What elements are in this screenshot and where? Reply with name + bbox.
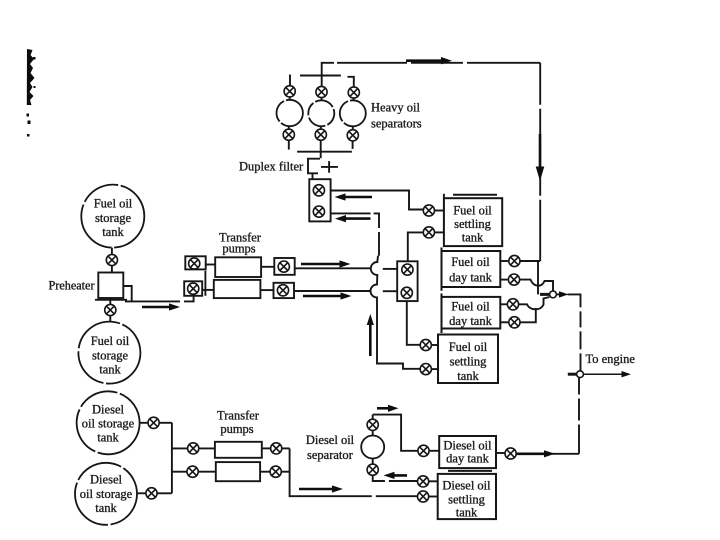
svg-text:Fuel oil: Fuel oil: [453, 204, 492, 218]
svg-text:tank: tank: [457, 369, 479, 383]
svg-text:Duplex filter: Duplex filter: [239, 160, 304, 174]
svg-text:day tank: day tank: [449, 314, 492, 328]
svg-text:tank: tank: [462, 231, 484, 245]
svg-text:Fuel oil: Fuel oil: [91, 334, 130, 348]
svg-text:Fuel oil: Fuel oil: [94, 197, 133, 211]
svg-text:tank: tank: [456, 506, 478, 520]
svg-text:Preheater: Preheater: [49, 279, 95, 293]
svg-text:Diesel: Diesel: [90, 473, 122, 487]
svg-text:day tank: day tank: [446, 452, 489, 466]
svg-text:Fuel oil: Fuel oil: [449, 340, 488, 354]
svg-text:Diesel oil: Diesel oil: [442, 479, 491, 493]
svg-text:settling: settling: [454, 217, 492, 231]
svg-text:storage: storage: [92, 349, 129, 363]
svg-text:Fuel oil: Fuel oil: [451, 255, 490, 269]
svg-text:pumps: pumps: [220, 422, 253, 436]
svg-text:tank: tank: [102, 225, 124, 239]
svg-text:settling: settling: [450, 355, 488, 369]
svg-text:tank: tank: [97, 431, 119, 445]
svg-text:pumps: pumps: [222, 242, 255, 256]
svg-text:Fuel oil: Fuel oil: [451, 300, 490, 314]
svg-text:Transfer: Transfer: [217, 409, 260, 423]
svg-text:tank: tank: [95, 501, 117, 515]
svg-text:separators: separators: [371, 117, 422, 131]
svg-text:day tank: day tank: [449, 271, 492, 285]
svg-text:Diesel oil: Diesel oil: [306, 433, 355, 447]
svg-text:To engine: To engine: [586, 352, 636, 366]
svg-text:storage: storage: [95, 211, 132, 225]
svg-text:oil storage: oil storage: [82, 417, 135, 431]
svg-text:separator: separator: [307, 448, 354, 462]
svg-text:oil storage: oil storage: [80, 487, 133, 501]
svg-text:Diesel: Diesel: [92, 403, 124, 417]
svg-text:tank: tank: [99, 363, 121, 377]
svg-text:Diesel oil: Diesel oil: [443, 439, 492, 453]
svg-text:settling: settling: [448, 493, 486, 507]
svg-text:Heavy oil: Heavy oil: [371, 101, 420, 115]
